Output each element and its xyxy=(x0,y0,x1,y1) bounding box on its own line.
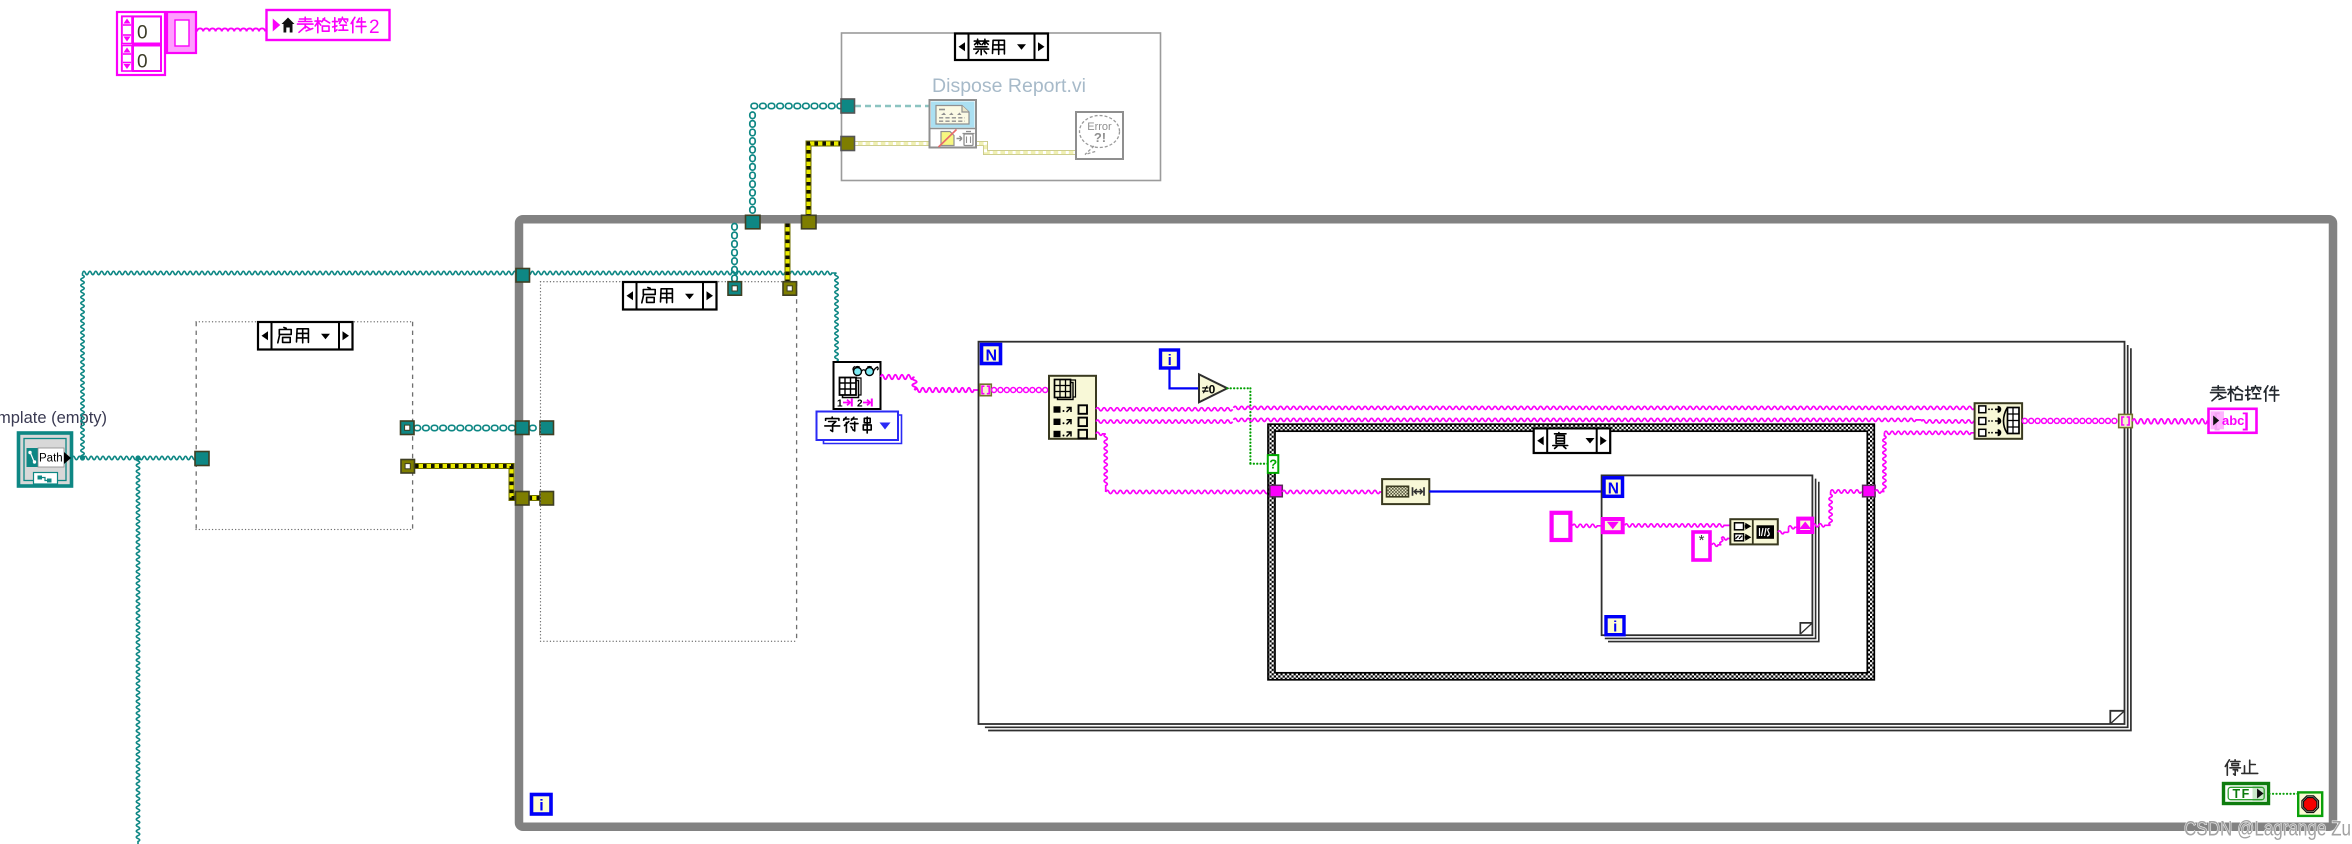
while loop iteration terminal i xyxy=(532,795,552,815)
svg-text:]: ] xyxy=(2243,411,2249,432)
label 停止 xyxy=(2225,760,2257,775)
wire: error loop-top to DS xyxy=(809,144,843,217)
tunnel: error on while-loop top xyxy=(802,215,817,229)
tunnel: refnum on while-loop top xyxy=(746,215,761,229)
wire: * to concatenate xyxy=(1712,537,1730,546)
svg-text:0: 0 xyxy=(137,52,148,73)
wire: string to String Length xyxy=(1282,490,1382,493)
svg-text:2: 2 xyxy=(857,399,863,410)
wire: 3D string array to indicator xyxy=(2132,419,2208,424)
wire: string row 3 to case structure xyxy=(1096,432,1270,493)
svg-text:*: * xyxy=(1699,532,1705,549)
tunnel: refnum S1 right border xyxy=(401,421,415,435)
wire: cluster-array squiggle to property label xyxy=(197,28,265,31)
wire: string 2D array from Read VI to for loop xyxy=(881,375,980,392)
FL2 iteration terminal i xyxy=(1606,617,1624,636)
Index Array node xyxy=(1049,376,1096,439)
svg-text:?: ? xyxy=(1269,457,1277,472)
wire: dimmed refnum inside DS xyxy=(855,105,929,107)
string constant (empty) xyxy=(1552,513,1571,540)
tunnel: error S2 left border xyxy=(540,492,554,506)
wire: string SR to concatenate xyxy=(1625,524,1730,527)
FL1 count terminal N xyxy=(982,345,1001,365)
for loop FL2 frame (stacked pages) xyxy=(1602,475,1819,641)
reference label 表格控件 2 xyxy=(267,10,390,40)
wire: boolean dotted to case selector ? xyxy=(1227,388,1268,463)
tunnel: refnum S2 left border xyxy=(540,421,554,435)
tunnel: refnum DS left border xyxy=(841,99,855,113)
wire: string row 2 to Build Array xyxy=(1096,418,1975,423)
DS selector label 禁用 xyxy=(955,34,1048,61)
path control (template, empty) xyxy=(0,409,107,486)
svg-text:N: N xyxy=(1608,480,1619,497)
wire: path vertical up at x=82 xyxy=(81,273,84,458)
wire junction dot B xyxy=(135,455,140,460)
not-equal-to-0 node xyxy=(1199,374,1227,402)
wire: refnum chain S1 to loop xyxy=(414,425,515,430)
tunnel: string out of CS (right) xyxy=(1863,485,1876,497)
Read Delimited Spreadsheet.vi icon xyxy=(834,362,881,410)
wire: empty string to shift register xyxy=(1573,524,1601,527)
indicator 表格控件 terminal [abc] xyxy=(2209,409,2257,433)
string constant "*" xyxy=(1693,532,1710,560)
watermark CSDN xyxy=(2184,818,2351,841)
svg-text:1: 1 xyxy=(837,399,843,410)
boolean control TF (stop) xyxy=(2224,784,2269,804)
polymorphic selector 字符串 xyxy=(817,412,902,444)
wire: long path wire across top xyxy=(83,271,837,274)
error dialog icon (Error ?!) xyxy=(1076,112,1123,159)
svg-text:i: i xyxy=(1613,619,1617,636)
wire: CS tunnel up to Build Array input 3 xyxy=(1875,431,1975,493)
svg-text:TF: TF xyxy=(2233,787,2251,801)
wire: SR output to CS tunnel xyxy=(1813,490,1862,527)
FL1 iteration terminal i xyxy=(1161,350,1179,369)
svg-text:Dispose Report.vi: Dispose Report.vi xyxy=(932,75,1086,97)
tunnel: error while-loop left border xyxy=(516,492,530,506)
FL1 indexing tunnel [] (right) xyxy=(2119,414,2133,427)
tunnel: refnum S2 top border xyxy=(728,282,742,296)
tunnel: error S2 top border xyxy=(783,282,797,296)
while loop frame xyxy=(519,219,2333,827)
svg-text:i: i xyxy=(539,798,543,815)
svg-text:N: N xyxy=(986,348,998,365)
wire: path from control to S1 xyxy=(72,456,196,459)
wire: dimmed error inside DS xyxy=(855,141,929,146)
wire: concatenated string to right SR xyxy=(1778,526,1798,534)
stop button (red octagon) xyxy=(2298,792,2322,816)
svg-text:0: 0 xyxy=(137,23,148,44)
shift register left (down arrow) xyxy=(1603,519,1623,532)
svg-text:Path: Path xyxy=(39,453,63,465)
wire: boolean dotted TF to stop xyxy=(2270,793,2299,795)
wire: error cluster between tunnels xyxy=(529,495,542,501)
tunnel: string into CS (left) xyxy=(1270,485,1283,497)
tunnel: path into while loop (left border) xyxy=(516,269,530,283)
Search/Replace String node xyxy=(1730,519,1778,544)
Build Array node xyxy=(1975,403,2023,439)
diagram disable structure S1 frame 启用 xyxy=(196,322,413,530)
wire: i32 from i to not-equal xyxy=(1170,368,1199,388)
wire: dimmed error to error icon xyxy=(976,144,1076,153)
cluster element box xyxy=(167,12,196,53)
svg-text:mplate (empty): mplate (empty) xyxy=(0,409,107,427)
tunnel: refnum while-loop left border xyxy=(516,421,530,435)
S1 selector label 启用 xyxy=(258,322,353,350)
tunnel: error DS left border xyxy=(841,137,855,151)
wire: path drop to Read Delimited Spreadsheet xyxy=(835,273,838,362)
svg-text:i: i xyxy=(1168,352,1172,369)
svg-text:abc: abc xyxy=(2222,413,2244,428)
wire: i32 length to inner for loop N xyxy=(1429,490,1601,492)
array-of-clusters constant (index/value control) xyxy=(117,12,165,75)
label Dispose Report.vi xyxy=(932,75,1086,97)
wire: 2D string array to FL1 tunnel xyxy=(2022,418,2117,423)
svg-text:?!: ?! xyxy=(1094,130,1106,145)
tunnel: error S1 right border xyxy=(401,460,415,474)
wire: string row 1 to Build Array xyxy=(1096,406,1975,411)
for loop FL1 frame (stacked pages) xyxy=(979,342,2131,731)
wire: error loop to S2 xyxy=(785,224,791,284)
wire: refnum chain loop-top to DS xyxy=(750,103,844,213)
svg-text:≠0: ≠0 xyxy=(1202,383,1216,397)
diagram disable structure DS frame 禁用 xyxy=(842,33,1161,181)
CS selector label 真 xyxy=(1534,428,1611,453)
label 表格控件 (indicator) xyxy=(2211,386,2280,402)
Dispose Report.vi icon xyxy=(930,100,977,148)
wire: string array tunnel to Index Array xyxy=(992,388,1048,393)
shift register right (up arrow) xyxy=(1798,519,1812,532)
wire: refnum chain between tunnels xyxy=(530,425,537,430)
String Length node xyxy=(1382,479,1429,504)
wire: error cluster S1 to loop xyxy=(415,466,517,498)
CS selector terminal ? xyxy=(1268,455,1279,473)
tunnel: path into S1 (left border) xyxy=(195,452,209,466)
svg-text:2: 2 xyxy=(369,17,380,38)
FL1 indexing tunnel [] (left) xyxy=(980,384,992,396)
wire: path vertical down to bottom edge xyxy=(136,458,139,844)
wire junction dot A xyxy=(80,455,85,460)
S2 selector label 启用 xyxy=(623,282,717,310)
FL2 count terminal N xyxy=(1604,478,1623,498)
case structure CS frame 真 (hatched border) xyxy=(1268,424,1874,680)
svg-text:CSDN @Lagrange Zu: CSDN @Lagrange Zu xyxy=(2184,818,2351,841)
diagram disable structure S2 frame 启用 xyxy=(541,282,797,642)
wire: refnum chain loop to S2 xyxy=(732,224,737,282)
